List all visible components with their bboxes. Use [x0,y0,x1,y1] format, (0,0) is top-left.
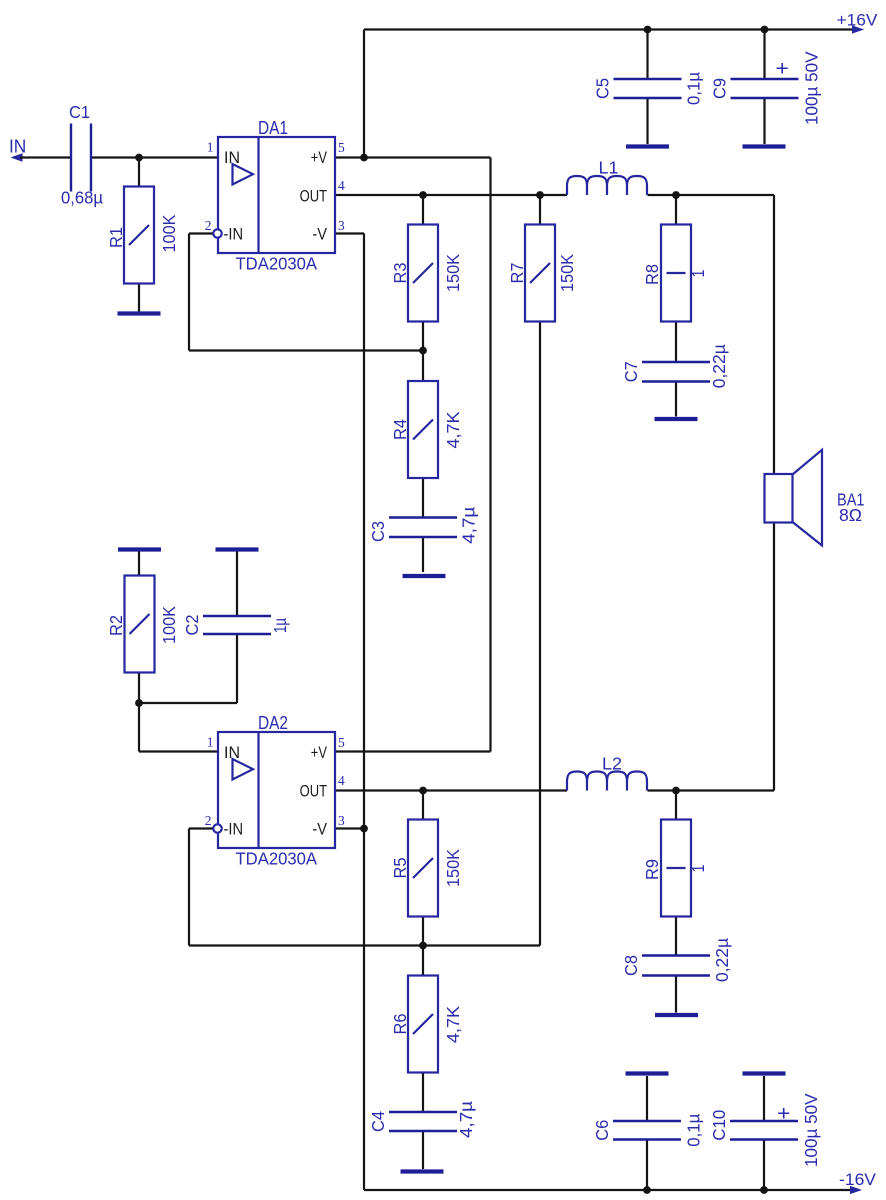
svg-text:IN: IN [224,743,240,762]
inductor L1 [567,176,647,195]
svg-text:C4: C4 [368,1111,388,1132]
wire [138,158,140,187]
wire [422,1132,424,1169]
svg-text:8Ω: 8Ω [839,505,862,525]
wire [236,634,238,703]
wire [422,478,424,518]
wire [489,158,491,752]
node R8 top [672,191,680,199]
svg-text:3: 3 [338,813,345,828]
wire [422,791,424,820]
pin-2 bubble DA1 [213,229,221,237]
wire [138,550,140,576]
svg-text:+: + [777,1103,790,1126]
wire [539,195,541,225]
svg-text:1: 1 [688,270,708,278]
wire [236,550,238,617]
wire [646,30,648,80]
wire [335,232,364,234]
svg-text:R4: R4 [390,419,410,440]
wire [188,234,190,351]
ground [403,574,446,578]
resistor R1 [124,187,154,284]
wire [189,827,214,829]
wire [648,194,775,196]
wire [648,789,775,791]
svg-text:100K: 100K [159,606,179,644]
capacitor C1 [70,124,72,192]
node R9 top [672,787,680,795]
svg-text:C8: C8 [621,955,641,976]
svg-text:100K: 100K [159,214,179,252]
wire [139,702,237,704]
wire [675,382,677,417]
wire [646,1140,648,1191]
svg-text:-V: -V [312,820,327,839]
svg-text:5: 5 [338,140,345,155]
svg-text:0,22µ: 0,22µ [712,938,732,982]
op-amp DA1 [218,137,335,253]
wire [138,284,140,312]
svg-text:C5: C5 [593,78,613,99]
wire [364,1189,852,1191]
resistor R2 [125,576,155,673]
svg-text:TDA2030A: TDA2030A [236,254,318,274]
wire [675,791,677,820]
svg-text:DA1: DA1 [258,118,288,138]
wire [675,917,677,956]
wire [675,322,677,363]
input arrow IN [12,154,22,161]
svg-text:R5: R5 [390,858,410,879]
svg-text:C6: C6 [592,1120,612,1141]
svg-text:4,7K: 4,7K [443,1006,463,1043]
svg-text:150K: 150K [557,254,577,292]
node R5/R6 [419,942,427,950]
svg-text:0,1µ: 0,1µ [684,72,704,105]
capacitor C8 [642,954,710,956]
svg-text:0,68µ: 0,68µ [61,188,103,208]
svg-text:+16V: +16V [837,11,879,30]
wire [763,30,765,80]
resistor R9 [661,820,691,917]
svg-text:5: 5 [338,735,345,750]
wire [422,322,424,382]
node R5 top [419,787,427,795]
resistor R6 [408,976,438,1073]
node C1/R1 [135,154,143,162]
ground [743,144,786,148]
capacitor C4 [389,1111,457,1113]
node R3 top [419,191,427,199]
node R3/R4 [419,347,427,355]
svg-text:100µ 50V: 100µ 50V [802,51,822,125]
svg-text:1µ: 1µ [270,618,290,633]
svg-text:100µ 50V: 100µ 50V [801,1093,821,1167]
svg-text:150K: 150K [443,849,463,887]
wire [763,98,765,144]
node R2/C2 [135,699,143,707]
svg-text:-V: -V [312,225,327,244]
ground [626,1071,669,1075]
ground [118,547,161,551]
svg-text:-IN: -IN [224,820,244,839]
svg-text:C10: C10 [709,1109,729,1140]
svg-text:0,22µ: 0,22µ [709,344,729,388]
wire [189,232,214,234]
svg-text:4: 4 [338,773,345,788]
wire [675,976,677,1013]
wire [188,829,190,946]
resistor R4 [408,381,438,478]
svg-text:R1: R1 [106,227,126,248]
wire [335,750,491,752]
ground [655,1013,698,1017]
wire [422,917,424,976]
capacitor C5 [614,78,682,80]
wire [335,194,567,196]
node C5 rail [644,26,652,34]
node -V DA2 [360,825,368,833]
svg-text:R9: R9 [642,859,662,880]
resistor R5 [408,820,438,917]
ground [743,1071,786,1075]
svg-text:4: 4 [338,178,345,193]
svg-text:IN: IN [9,136,26,156]
capacitor C2 [203,615,271,617]
svg-text:1: 1 [207,735,214,750]
svg-text:+V: +V [311,148,328,167]
svg-text:OUT: OUT [300,782,327,801]
node C6 rail [643,1186,651,1194]
wire [139,750,218,752]
wire [773,195,775,473]
svg-text:3: 3 [338,218,345,233]
svg-text:4,7µ: 4,7µ [459,507,479,544]
ground [655,417,698,421]
wire [675,195,677,225]
svg-text:2: 2 [205,813,212,828]
node C10 rail [760,1186,768,1194]
svg-text:-IN: -IN [224,225,244,244]
ground [626,144,669,148]
node R7 top [536,191,544,199]
svg-text:C3: C3 [368,521,388,542]
inductor L2 [567,772,647,791]
svg-text:R6: R6 [390,1014,410,1035]
speaker BA1 [765,474,793,523]
svg-text:+: + [776,58,789,81]
svg-text:R2: R2 [106,615,126,636]
wire [189,944,540,946]
wire [91,156,218,158]
resistor R8 [661,225,691,322]
wire [646,98,648,144]
power arrow +16V [853,26,863,33]
svg-text:1: 1 [688,865,708,873]
wire [335,827,364,829]
svg-text:4,7µ: 4,7µ [456,1101,476,1138]
resistor R3 [408,225,438,322]
wire [138,673,140,752]
ground [118,311,161,315]
wire [363,234,365,1191]
svg-text:OUT: OUT [300,187,327,206]
svg-text:L1: L1 [599,158,619,178]
svg-text:L2: L2 [602,754,622,774]
svg-text:0,1µ: 0,1µ [684,1114,704,1147]
node +V DA1 [360,154,368,162]
svg-text:4,7K: 4,7K [443,411,463,448]
capacitor C7 [642,361,710,363]
svg-text:C1: C1 [69,102,90,122]
capacitor C9 [731,78,799,80]
svg-text:IN: IN [224,148,240,167]
wire [20,156,71,158]
svg-text:2: 2 [205,218,212,233]
capacitor C6 [613,1120,681,1122]
wire [422,1073,424,1113]
wire [363,30,365,158]
wire [422,195,424,225]
svg-text:C2: C2 [182,615,202,636]
svg-text:-16V: -16V [839,1170,877,1189]
wire [763,1076,765,1121]
capacitor C3 [389,516,457,518]
svg-text:1: 1 [207,140,214,155]
svg-text:TDA2030A: TDA2030A [236,849,318,869]
svg-text:C7: C7 [621,361,641,382]
svg-text:C9: C9 [710,78,730,99]
svg-text:+V: +V [311,743,328,762]
resistor R7 [525,225,555,322]
wire [763,1140,765,1191]
wire [646,1076,648,1121]
node C9 rail [761,26,769,34]
wire [539,322,541,946]
svg-text:R3: R3 [390,263,410,284]
wire [773,522,775,791]
svg-text:150K: 150K [443,254,463,292]
svg-text:DA2: DA2 [258,713,288,733]
wire [189,349,423,351]
power arrow -16V [851,1187,861,1194]
svg-text:R7: R7 [507,263,527,284]
capacitor C10 [730,1120,798,1122]
op-amp DA2 [218,732,335,848]
wire [335,156,491,158]
ground [401,1169,444,1173]
svg-text:R8: R8 [642,264,662,285]
pin-2 bubble DA2 [213,824,221,832]
wire [335,789,567,791]
wire [364,28,854,30]
wire [422,537,424,572]
ground [216,547,259,551]
